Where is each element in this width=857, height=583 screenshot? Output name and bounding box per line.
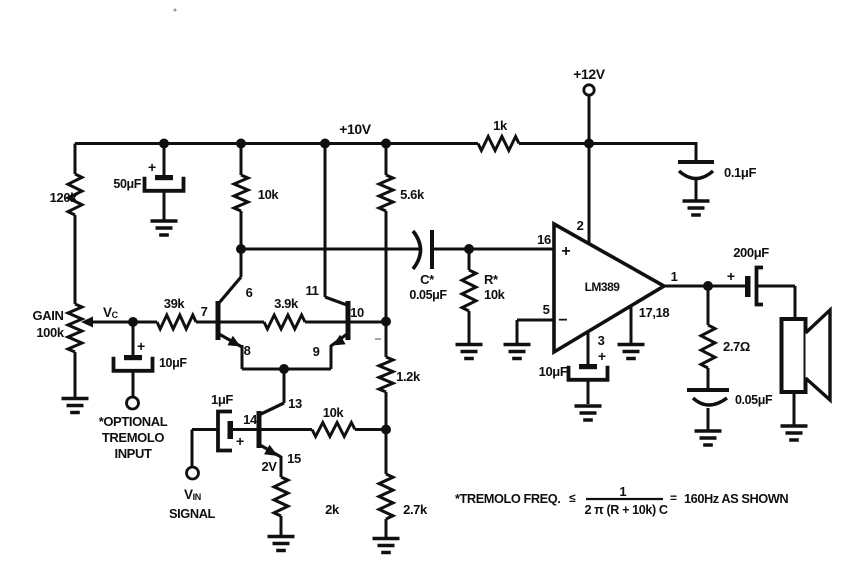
transistor Q2 collector [324,144,327,298]
svg-text:2: 2 [577,218,584,233]
svg-text:+: + [236,433,244,449]
svg-text:2 π (R + 10k) C: 2 π (R + 10k) C [584,503,667,517]
svg-text:+12V: +12V [573,66,606,82]
speaker [782,319,806,392]
wire base to 10k [259,428,312,431]
wire pin 2 [588,144,591,245]
wire 5.6k to pin10 node [385,211,388,322]
capacitor 1uF [218,412,232,451]
resistor 1.2k [385,322,388,358]
artifact dash [375,338,381,340]
terminal Vin [187,467,199,479]
wire 120k to pot [74,215,77,304]
svg-text:10μF: 10μF [539,364,568,379]
ground pin 17,18 [618,343,645,347]
resistor 2k [274,477,288,516]
capacitor 0.05uF output [707,368,710,390]
ground 50uF [151,219,178,223]
svg-text:10k: 10k [323,405,345,420]
svg-text:1.2k: 1.2k [396,369,421,384]
ground speaker [781,424,808,428]
ground 2k [268,535,295,539]
ground R* [456,343,483,347]
wire pin 3 [587,332,590,365]
svg-text:1μF: 1μF [211,392,233,407]
wire pin 5 [517,319,554,322]
wire bus down [283,369,286,403]
svg-text:10k: 10k [258,187,280,202]
wiper arrow GAIN [81,317,93,328]
svg-text:14: 14 [243,412,258,427]
resistor 2.7k [385,430,388,475]
svg-text:+10V: +10V [339,121,372,137]
wire pin1 out [664,285,745,288]
svg-text:+: + [598,348,606,364]
resistor 3.9k [219,321,264,324]
svg-text:TREMOLO: TREMOLO [102,430,164,445]
transistor Q1 base bar [216,301,221,340]
ground 2.7k [373,537,400,541]
wire C* to pin16 [434,248,554,251]
ground pot [62,397,89,401]
svg-text:5.6k: 5.6k [400,187,425,202]
transistor Q3 emitter [260,445,281,457]
ground 0.1uF [683,199,710,203]
ground 0.05uF [695,429,722,433]
svg-text:10k: 10k [484,287,506,302]
node emitter bus [279,364,289,374]
terminal +12V [584,85,594,95]
svg-text:3: 3 [598,333,605,348]
svg-text:100k: 100k [36,325,64,340]
svg-text:1k: 1k [493,118,508,133]
resistor R* 10k [468,249,471,270]
wire 2k to ground [280,516,283,535]
wire node to C* [241,248,420,251]
svg-text:10μF: 10μF [159,356,187,370]
svg-text:1: 1 [619,484,626,499]
node R* junction [464,244,474,254]
terminal tremolo [127,397,139,409]
node output junction [703,281,713,291]
svg-text:3.9k: 3.9k [274,296,299,311]
svg-text:50μF: 50μF [113,177,141,191]
speck artifact [174,9,177,12]
svg-text:+: + [561,243,570,260]
transistor Q1 emitter [219,334,242,347]
svg-text:13: 13 [288,396,302,411]
svg-text:−: − [558,312,567,329]
wire cap to speaker [757,285,795,288]
svg-text:7: 7 [201,304,208,319]
svg-text:15: 15 [287,451,301,466]
capacitor 0.1uF [678,160,714,164]
resistor 2.7ohm [707,286,710,325]
svg-text:17,18: 17,18 [639,305,670,320]
svg-text:120k: 120k [50,190,78,205]
op-amp LM389 [554,224,664,352]
node divider junction [381,425,391,435]
node rail-10k [236,139,246,149]
wire base Q1 from 39k [196,321,218,324]
resistor 5.6k [385,144,388,176]
resistor 39k [157,315,196,329]
capacitor 200uF [745,276,751,297]
svg-text:VC: VC [103,305,119,320]
wire rail to 0.1uF [695,142,698,162]
ground pin 5 [504,343,531,347]
svg-text:≤: ≤ [569,491,576,505]
node Vc junction [128,317,138,327]
wire +10V rail [75,142,478,145]
transistor Q1 collector [240,249,243,277]
svg-text:R*: R* [484,272,499,287]
svg-text:39k: 39k [164,296,186,311]
transistor Q2 emitter [331,334,347,346]
svg-text:SIGNAL: SIGNAL [169,506,216,521]
svg-text:+: + [727,268,735,284]
resistor 1k [478,137,519,151]
svg-text:16: 16 [537,232,551,247]
transistor Q3 base bar [257,411,262,448]
svg-text:9: 9 [313,344,320,359]
svg-text:200μF: 200μF [733,245,769,260]
svg-text:2.7Ω: 2.7Ω [723,339,750,354]
svg-text:160Hz AS SHOWN: 160Hz AS SHOWN [684,491,788,506]
svg-text:6: 6 [246,285,253,300]
svg-text:VIN: VIN [184,487,201,502]
svg-text:8: 8 [244,343,251,358]
wire speaker to ground [793,392,796,425]
ground 10uF bypass [575,404,602,408]
svg-text:+: + [137,338,145,354]
svg-text:5: 5 [543,302,550,317]
svg-text:=: = [670,491,677,505]
svg-text:11: 11 [306,283,319,298]
potentiometer GAIN 100k [68,304,82,352]
svg-text:2.7k: 2.7k [403,502,428,517]
wire 2.7k to ground [385,519,388,537]
capacitor 50uF [163,144,166,176]
node rail-12V junction [584,139,594,149]
wire emitter bus [242,368,331,371]
svg-text:0.1μF: 0.1μF [724,165,756,180]
svg-text:1: 1 [671,269,678,284]
transistor Q2 base bar [346,301,351,340]
capacitor 10uF tremolo [132,322,135,355]
svg-text:2V: 2V [261,459,277,474]
wire pin 17,18 [630,306,633,343]
resistor 10k feedback [312,423,355,437]
node rail-50uF [159,139,169,149]
svg-text:LM389: LM389 [585,280,621,294]
svg-text:C*: C* [420,272,435,287]
wire cap to base [233,428,259,431]
node pin10 junction [381,317,391,327]
svg-text:*OPTIONAL: *OPTIONAL [99,414,168,429]
wire input to cap [192,428,218,431]
svg-text:2k: 2k [325,502,340,517]
wire 10k to node [240,211,243,249]
svg-text:+: + [148,159,156,175]
wire pot to ground [74,352,77,397]
svg-text:10: 10 [350,305,364,320]
resistor 10k bias [240,144,243,176]
transistor Q3 collector [261,403,284,414]
wire base Q2 to node [349,321,386,324]
svg-text:0.05μF: 0.05μF [735,393,773,407]
svg-text:0.05μF: 0.05μF [409,288,447,302]
node rail-Q2col [320,139,330,149]
node rail-5.6k [381,139,391,149]
svg-text:INPUT: INPUT [114,446,151,461]
wire 120k top [74,144,77,175]
capacitor C* 0.05uF [413,231,421,269]
wire 10k to node [355,428,386,431]
svg-text:GAIN: GAIN [33,308,64,323]
svg-text:*TREMOLO FREQ.: *TREMOLO FREQ. [455,491,560,506]
resistor 120k [68,174,82,215]
node C* junction [236,244,246,254]
wire 1.2k to node [385,392,388,430]
